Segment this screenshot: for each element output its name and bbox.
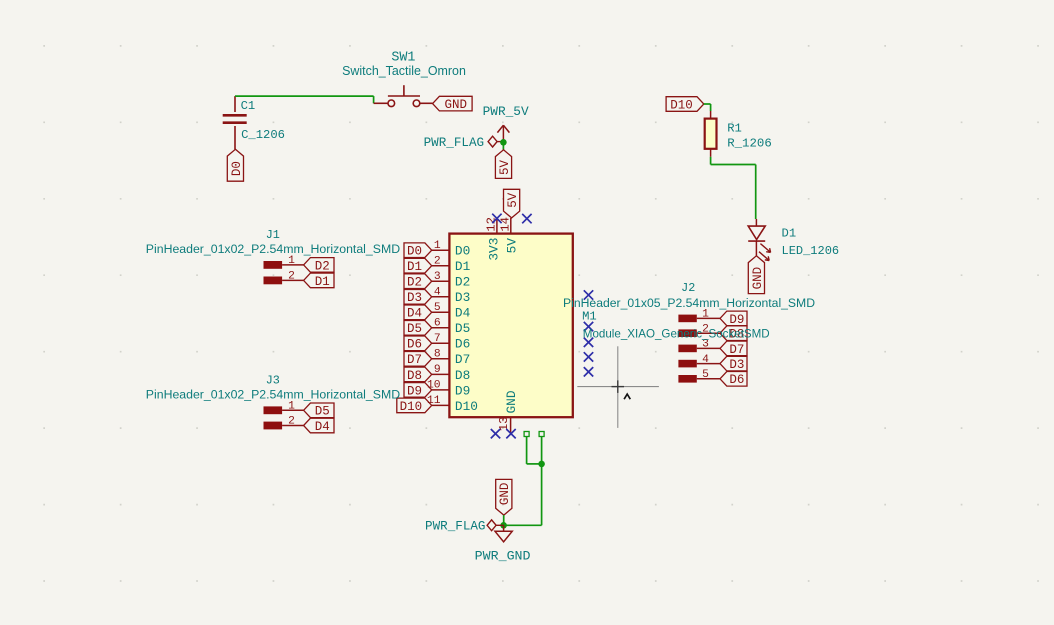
M1 pin 10 (D9) bbox=[427, 380, 470, 399]
node D4 (global label at J3 pin 2) bbox=[304, 418, 334, 434]
svg-text:D3: D3 bbox=[407, 291, 422, 305]
node 5V (global label above module pin 14) bbox=[504, 189, 521, 218]
svg-text:D6: D6 bbox=[407, 338, 422, 352]
svg-text:R_1206: R_1206 bbox=[727, 137, 772, 151]
svg-text:1: 1 bbox=[288, 255, 295, 267]
svg-text:5V: 5V bbox=[505, 238, 520, 254]
M1 pin 8 (D7) bbox=[432, 348, 470, 367]
node D9 (global label at J2 pin 1) bbox=[720, 311, 747, 327]
junction (5V node) bbox=[500, 139, 507, 146]
wire R1 to D1 bbox=[711, 157, 756, 219]
node D7 (global label at J2 pin 3) bbox=[720, 341, 747, 357]
svg-text:D0: D0 bbox=[407, 245, 422, 259]
node D1 (global label at J1 pin 2) bbox=[304, 273, 334, 289]
svg-text:D6: D6 bbox=[729, 373, 744, 387]
node D7 (global label at M1 pin 8) bbox=[404, 352, 432, 368]
switch SW1 bbox=[374, 85, 433, 106]
svg-text:2: 2 bbox=[434, 255, 441, 267]
node D4 (global label at M1 pin 5) bbox=[404, 305, 432, 321]
node D10 (global label at R1) bbox=[666, 97, 704, 113]
svg-text:PWR_GND: PWR_GND bbox=[475, 548, 531, 563]
svg-text:2: 2 bbox=[288, 416, 295, 428]
wire 5V node down bbox=[502, 142, 504, 150]
svg-text:PWR_5V: PWR_5V bbox=[483, 104, 529, 119]
J2 pin 1 pad bbox=[678, 309, 720, 323]
resistor R1 bbox=[705, 111, 717, 157]
svg-text:GND: GND bbox=[504, 390, 519, 413]
svg-text:5: 5 bbox=[702, 369, 709, 381]
M1 pin 3 (D2) bbox=[432, 271, 470, 290]
node D1 (global label at M1 pin 2) bbox=[404, 258, 432, 274]
power symbol PWR_5V (5V arrow) bbox=[497, 125, 509, 142]
svg-text:D1: D1 bbox=[315, 275, 330, 289]
no-connect (M1 right side 5) bbox=[584, 367, 593, 376]
node D8 (global label at J2 pin 2) bbox=[720, 326, 747, 342]
power flag PWR_FLAG (top) bbox=[488, 136, 503, 147]
svg-text:LED_1206: LED_1206 bbox=[782, 244, 840, 258]
svg-text:3V3: 3V3 bbox=[486, 238, 501, 261]
cursor crosshair bbox=[577, 346, 659, 428]
node D5 (global label at J3 pin 1) bbox=[304, 403, 334, 419]
no-connect on pin 13 bbox=[506, 429, 515, 438]
svg-text:D10: D10 bbox=[455, 399, 478, 414]
svg-text:D8: D8 bbox=[407, 369, 422, 383]
svg-text:5: 5 bbox=[434, 302, 441, 314]
cursor caret bbox=[624, 394, 630, 399]
svg-text:D4: D4 bbox=[407, 307, 422, 321]
svg-text:1: 1 bbox=[288, 400, 295, 412]
capacitor C1 bbox=[223, 96, 247, 149]
svg-text:7: 7 bbox=[434, 333, 441, 345]
svg-text:D10: D10 bbox=[670, 98, 693, 112]
svg-text:D3: D3 bbox=[455, 290, 470, 305]
svg-text:D1: D1 bbox=[407, 260, 422, 274]
svg-text:PinHeader_01x05_P2.54mm_Horizo: PinHeader_01x05_P2.54mm_Horizontal_SMD bbox=[563, 296, 815, 310]
svg-text:D7: D7 bbox=[729, 343, 744, 357]
J2 pin 4 pad bbox=[678, 354, 720, 368]
M1 pin 5 (D4) bbox=[432, 302, 471, 321]
junction (PWR_GND node) bbox=[500, 522, 507, 529]
J3 pin 1 pad bbox=[264, 400, 304, 414]
svg-text:D8: D8 bbox=[455, 368, 470, 383]
M1 pin 13 (GND) bbox=[497, 390, 519, 433]
svg-text:D2: D2 bbox=[407, 276, 422, 290]
no-connect on pin 12 bbox=[492, 214, 501, 223]
node GND (global label at SW1) bbox=[433, 96, 473, 112]
svg-text:D1: D1 bbox=[455, 259, 471, 274]
svg-text:C_1206: C_1206 bbox=[241, 128, 285, 142]
J1 pin 2 pad bbox=[264, 270, 304, 284]
svg-text:D7: D7 bbox=[455, 352, 470, 367]
power symbol PWR_GND (ground triangle) bbox=[495, 525, 512, 542]
no-connect (M1 right side 2) bbox=[584, 322, 593, 331]
svg-text:D10: D10 bbox=[400, 400, 423, 414]
node D5 (global label at M1 pin 6) bbox=[404, 321, 432, 337]
svg-text:3: 3 bbox=[434, 271, 441, 283]
svg-text:9: 9 bbox=[434, 364, 441, 376]
wire C1 to SW1 bbox=[235, 96, 374, 103]
node D6 (global label at M1 pin 7) bbox=[404, 336, 432, 352]
node D10 (global label at M1 pin 11) bbox=[397, 398, 432, 414]
wire (gnd net) bbox=[504, 437, 542, 526]
svg-text:GND: GND bbox=[751, 267, 765, 290]
svg-text:11: 11 bbox=[427, 395, 441, 407]
M1 pin 12 (3V3) bbox=[485, 217, 502, 261]
svg-text:C1: C1 bbox=[241, 99, 256, 113]
node D9 (global label at M1 pin 10) bbox=[404, 383, 432, 399]
M1 pin 1 (D0) bbox=[432, 240, 470, 259]
svg-text:D0: D0 bbox=[230, 161, 244, 176]
J3 pin 2 pad bbox=[264, 416, 304, 430]
node 5V (global label, up) bbox=[495, 150, 512, 179]
M1 pin 11 (D10) bbox=[427, 395, 478, 414]
LED D1 bbox=[748, 219, 770, 261]
svg-text:PinHeader_01x02_P2.54mm_Horizo: PinHeader_01x02_P2.54mm_Horizontal_SMD bbox=[146, 388, 400, 402]
svg-text:GND: GND bbox=[498, 483, 512, 506]
svg-text:6: 6 bbox=[434, 317, 441, 329]
svg-text:D0: D0 bbox=[455, 244, 470, 259]
junction (gnd wires) bbox=[538, 461, 545, 468]
svg-text:PinHeader_01x02_P2.54mm_Horizo: PinHeader_01x02_P2.54mm_Horizontal_SMD bbox=[146, 242, 400, 256]
J2 pin 5 pad bbox=[678, 369, 720, 383]
no-connect (M1 right side 4) bbox=[584, 352, 593, 361]
node GND (global label below D1) bbox=[748, 256, 765, 294]
M1 pin 4 (D3) bbox=[432, 286, 470, 305]
svg-text:J1: J1 bbox=[266, 228, 280, 242]
svg-text:J2: J2 bbox=[681, 281, 695, 295]
svg-text:D5: D5 bbox=[455, 321, 470, 336]
svg-text:1: 1 bbox=[702, 309, 709, 321]
svg-text:D5: D5 bbox=[407, 322, 422, 336]
J2 pin 2 pad bbox=[678, 323, 720, 337]
M1 pin 9 (D8) bbox=[432, 364, 470, 383]
J2 pin 3 pad bbox=[678, 339, 720, 353]
node D0 (global label at M1 pin 1) bbox=[404, 243, 432, 259]
node D2 (global label at J1 pin 1) bbox=[304, 258, 334, 274]
module M1 body bbox=[449, 234, 572, 418]
no-connect (floating, bottom left) bbox=[491, 429, 500, 438]
svg-text:D1: D1 bbox=[782, 226, 797, 240]
wire D10 to R1 bbox=[704, 104, 711, 111]
svg-text:Module_XIAO_Generic_SocketSMD: Module_XIAO_Generic_SocketSMD bbox=[583, 327, 770, 340]
svg-text:R1: R1 bbox=[727, 122, 742, 136]
no-connect (M1 right side 3) bbox=[584, 338, 593, 347]
M1 pin 6 (D5) bbox=[432, 317, 470, 336]
node D3 (global label at M1 pin 4) bbox=[404, 290, 432, 306]
svg-text:D9: D9 bbox=[407, 384, 422, 398]
svg-text:5V: 5V bbox=[506, 192, 520, 208]
M1 pin 14 (5V) bbox=[499, 217, 520, 253]
node D6 (global label at J2 pin 5) bbox=[720, 372, 747, 388]
svg-text:D3: D3 bbox=[729, 358, 744, 372]
svg-text:D4: D4 bbox=[455, 306, 471, 321]
no-connect (floating, right of pin 14) bbox=[522, 214, 531, 223]
node D0 (global label at C1) bbox=[227, 149, 244, 181]
power flag PWR_FLAG (bottom) bbox=[487, 520, 504, 531]
wire end square 2 bbox=[539, 432, 544, 437]
no-connect (M1 right side 1) bbox=[584, 290, 593, 299]
svg-text:D5: D5 bbox=[315, 405, 330, 419]
svg-text:1: 1 bbox=[434, 240, 441, 252]
svg-text:PWR_FLAG: PWR_FLAG bbox=[424, 136, 484, 150]
svg-text:D9: D9 bbox=[729, 313, 744, 327]
svg-text:GND: GND bbox=[444, 98, 467, 112]
svg-text:8: 8 bbox=[434, 348, 441, 360]
svg-text:D2: D2 bbox=[315, 259, 330, 273]
svg-text:10: 10 bbox=[427, 380, 441, 392]
svg-text:PWR_FLAG: PWR_FLAG bbox=[425, 520, 485, 534]
svg-text:D6: D6 bbox=[455, 337, 470, 352]
svg-text:Switch_Tactile_Omron: Switch_Tactile_Omron bbox=[342, 64, 466, 78]
M1 pin 7 (D6) bbox=[432, 333, 470, 352]
svg-text:D9: D9 bbox=[455, 383, 470, 398]
svg-text:J3: J3 bbox=[266, 373, 280, 387]
svg-text:D4: D4 bbox=[315, 420, 330, 434]
node D3 (global label at J2 pin 4) bbox=[720, 356, 747, 372]
svg-text:D7: D7 bbox=[407, 353, 422, 367]
wire end square 1 bbox=[524, 432, 529, 437]
svg-text:4: 4 bbox=[702, 354, 709, 366]
svg-text:D2: D2 bbox=[455, 275, 470, 290]
node D2 (global label at M1 pin 3) bbox=[404, 274, 432, 290]
svg-text:2: 2 bbox=[288, 270, 295, 282]
svg-text:14: 14 bbox=[499, 217, 513, 232]
svg-text:5V: 5V bbox=[498, 160, 512, 176]
wire GND label to node bbox=[503, 515, 505, 525]
svg-text:3: 3 bbox=[702, 339, 709, 351]
M1 pin 2 (D1) bbox=[432, 255, 471, 274]
svg-text:4: 4 bbox=[434, 286, 441, 298]
J1 pin 1 pad bbox=[264, 255, 304, 269]
node D8 (global label at M1 pin 9) bbox=[404, 367, 432, 383]
node GND (global label, down) bbox=[496, 479, 513, 515]
